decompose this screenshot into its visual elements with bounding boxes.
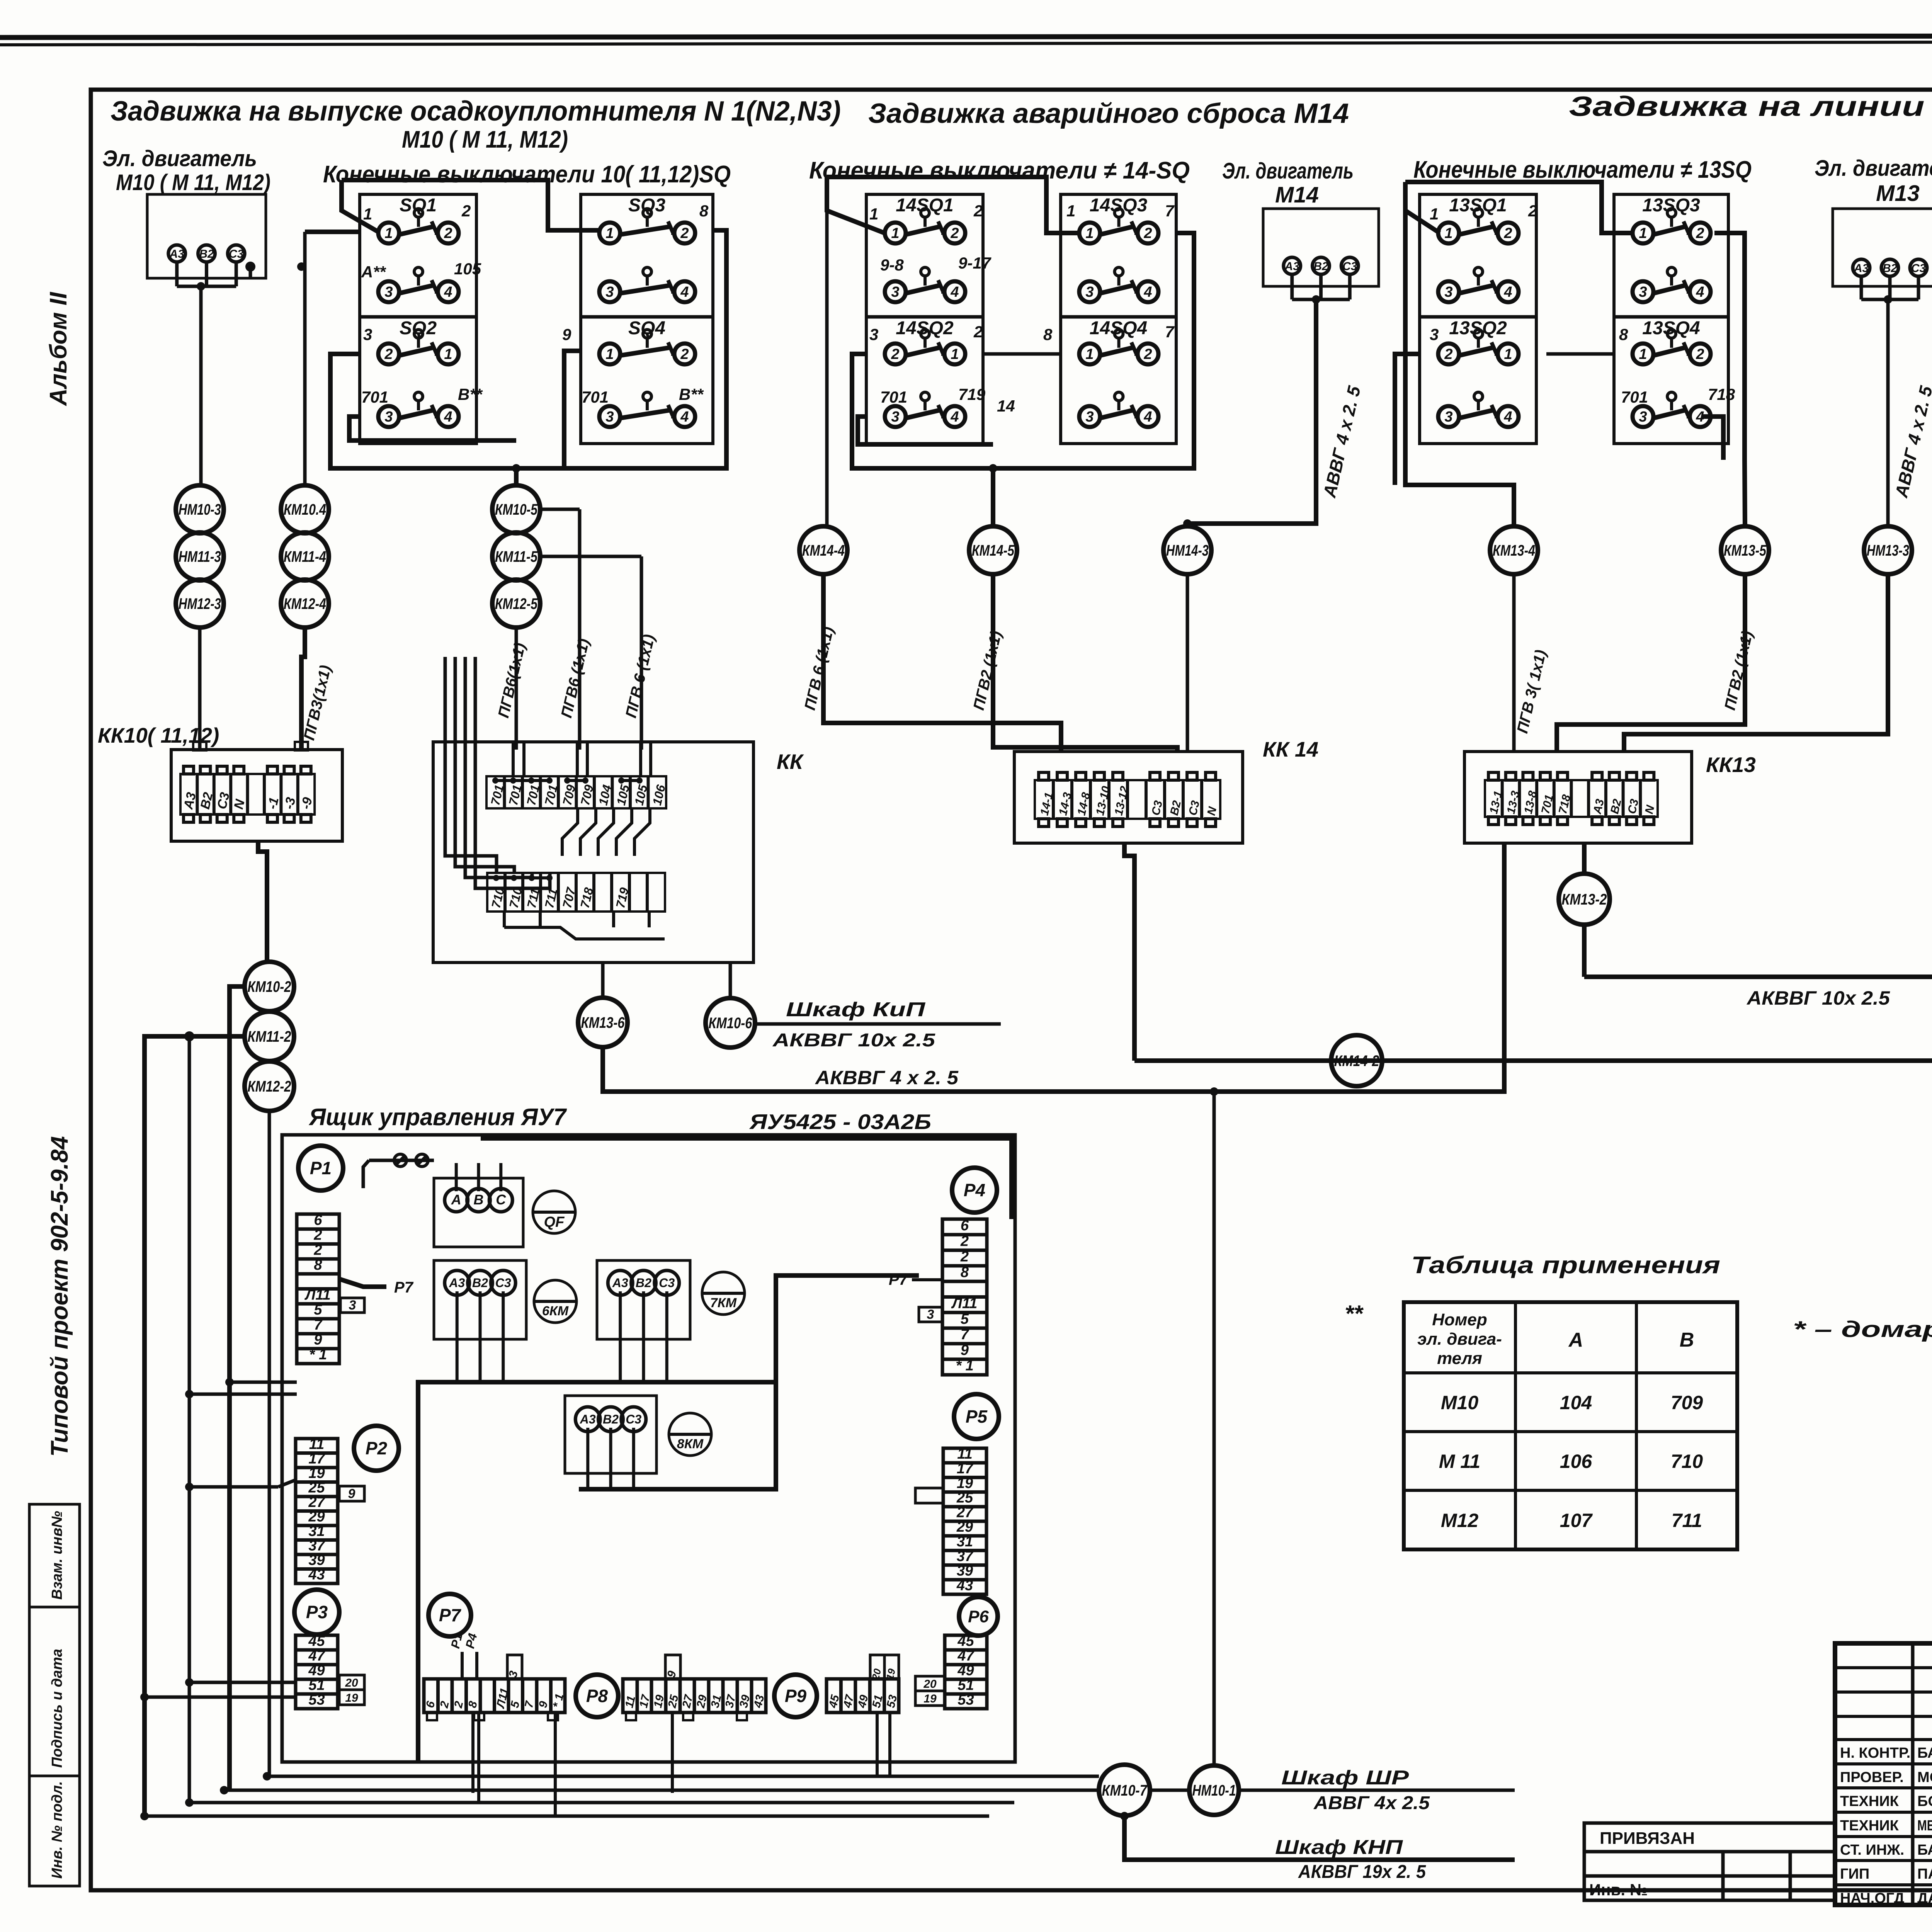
contactor 8КМ [669,1413,711,1456]
svg-text:В: В [474,1192,484,1207]
wire - SQ13 group top link [1405,182,1634,233]
svg-text:2: 2 [973,323,983,341]
contactor 6КМ [534,1280,577,1323]
svg-text:4: 4 [1143,284,1152,300]
wire - bottom bus y4597 [267,1775,1099,1778]
contact row 3-4 of 13SQ3 [1633,281,1653,302]
svg-text:19: 19 [957,1475,973,1492]
svg-text:3: 3 [1444,409,1452,425]
svg-text:А3: А3 [580,1412,596,1426]
wire - bottom bus y4665 [189,1801,1014,1804]
wire - group left vertical to КМ13-4 [1405,211,1514,526]
svg-text:1: 1 [1444,225,1452,241]
relay coil КМ13-6 [578,998,628,1047]
wire - SQ2 701 row link [349,417,516,440]
svg-text:1: 1 [1085,225,1094,241]
svg-text:Р4: Р4 [964,1180,985,1200]
svg-text:3: 3 [1085,409,1094,425]
svg-text:5: 5 [508,1699,522,1709]
svg-text:19: 19 [923,1692,937,1705]
svg-text:701: 701 [361,388,388,406]
svg-text:КК10( 11,12): КК10( 11,12) [98,723,219,747]
svg-text:КМ14-5: КМ14-5 [972,542,1015,559]
wire - 13SQ row crossing [1546,352,1614,356]
svg-text:С3: С3 [229,248,244,260]
svg-text:701: 701 [582,388,609,406]
svg-text:7: 7 [961,1327,969,1343]
junction dots [197,282,205,291]
svg-text:710: 710 [1671,1451,1703,1472]
svg-text:2: 2 [1143,346,1152,362]
svg-text:Шкаф ШР: Шкаф ШР [1281,1767,1409,1789]
svg-text:719: 719 [958,385,986,403]
svg-text:Конечные выключатели ≠ 13SQ: Конечные выключатели ≠ 13SQ [1413,156,1752,183]
svg-text:С3: С3 [1186,799,1202,816]
svg-text:1: 1 [605,346,614,362]
svg-text:14SQ1: 14SQ1 [896,195,953,216]
svg-text:ПГВ2 (1х1): ПГВ2 (1х1) [1721,629,1756,712]
terminal tabs КК10 [184,766,194,774]
svg-text:А3: А3 [1591,798,1607,815]
svg-text:В2: В2 [1313,260,1328,273]
wire - КМ14-5 down to КК14 [993,574,1177,752]
svg-text:2: 2 [1696,225,1704,241]
svg-text:N: N [1643,804,1657,815]
svg-text:В**: В** [458,385,483,403]
svg-text:104: 104 [1560,1392,1592,1413]
left margin stamp boxes [29,1504,80,1607]
wire - КМ10-7 down to Шкаф КНП line [1124,1816,1515,1860]
svg-text:НМ13-3: НМ13-3 [1867,542,1909,559]
relay label circle Р6 (ЯУ7) [959,1597,998,1636]
svg-text:НМ10-1: НМ10-1 [1192,1782,1236,1799]
relay label circle Р4 (ЯУ7) [952,1168,997,1213]
svg-text:ПГВ2 (1х1): ПГВ2 (1х1) [970,629,1005,712]
svg-text:1: 1 [1066,202,1075,220]
svg-text:47: 47 [957,1648,975,1664]
svg-text:Р4: Р4 [463,1632,480,1650]
relay coil КМ10-5 [492,485,540,533]
svg-text:2: 2 [384,346,393,362]
svg-text:9: 9 [348,1486,355,1501]
svg-text:Р9: Р9 [785,1686,807,1706]
svg-text:ПГВ6 (1х1): ПГВ6 (1х1) [558,637,593,719]
wire - КК10 bottom stub to КМ10-2 [258,841,267,960]
horizontal strip P9 (ЯУ7) [827,1679,899,1713]
svg-text:1: 1 [951,346,959,362]
svg-text:1: 1 [891,225,899,241]
svg-text:4: 4 [680,284,689,300]
svg-text:КМ14-2: КМ14-2 [1334,1053,1379,1070]
svg-text:1: 1 [384,225,393,241]
svg-text:2: 2 [950,225,959,241]
wire - НМ chain down to КК10 block [198,628,202,750]
svg-text:20: 20 [345,1677,358,1689]
svg-text:ТЕХНИК: ТЕХНИК [1840,1793,1899,1810]
wire - С3 lead corner [249,267,252,278]
wires exiting ЯУ7 strips downward [471,1713,474,1793]
svg-text:С3: С3 [1626,798,1641,815]
svg-text:С3: С3 [1149,799,1165,816]
relay coil КМ10-6 [706,998,755,1048]
svg-text:39: 39 [957,1563,973,1579]
limit switch box 14SQ3/14SQ4 [1061,194,1176,444]
wire - 14SQ2 701 row [858,417,993,444]
svg-text:3: 3 [1430,325,1439,344]
wire - КМ11-2 to left drop [145,1036,245,1816]
contact row 1-2 of 13SQ1 [1438,223,1459,243]
limit switch box 14SQ1/14SQ2 [866,194,983,444]
svg-text:теля: теля [1437,1349,1482,1368]
feet under ЯУ7 horizontal strips [427,1713,437,1720]
svg-text:Шкаф КНП: Шкаф КНП [1275,1836,1403,1859]
terminal tabs КК14 [1039,772,1049,780]
wire - SQ14 group top link [827,177,1081,233]
svg-text:А3: А3 [449,1276,465,1290]
wire - SQ4 side link [516,230,726,468]
svg-text:С3: С3 [626,1412,641,1426]
contact row of SQ2 [378,344,399,364]
svg-text:В2: В2 [603,1412,619,1426]
wire - branch drop [188,1036,191,1803]
svg-text:Инв. № подл.: Инв. № подл. [49,1781,65,1879]
svg-text:4: 4 [680,409,689,425]
svg-text:В2: В2 [636,1276,651,1290]
title block verticals (left part) [1911,1643,1915,1905]
wire - motor M14 down to НМ14-3 (АВВГ 4х2.5) [1187,299,1316,526]
relay coil КМ14-5 [969,526,1017,574]
svg-text:КМ13-2: КМ13-2 [1562,891,1607,908]
svg-text:А3: А3 [169,248,185,260]
svg-text:7: 7 [1165,323,1175,341]
relay coil КМ10-7 [1099,1765,1150,1816]
svg-text:1: 1 [363,205,372,223]
contact row of 14SQ2 [885,344,906,364]
relay coil НМ13-3 [1864,526,1912,574]
relay coil КМ11-2 [245,1012,294,1061]
title block rows (left part) [1835,1666,1932,1669]
wire - 13SQ4 side link to КМ13-5 [1714,233,1745,526]
application table [1404,1302,1737,1549]
svg-text:АВВГ 4х 2.5: АВВГ 4х 2.5 [1313,1793,1430,1813]
svg-text:КМ13-4: КМ13-4 [1493,542,1535,559]
relay label circle Р7 (ЯУ7) [429,1594,471,1636]
svg-text:АКВВГ 10х 2.5: АКВВГ 10х 2.5 [1746,987,1890,1009]
svg-text:27: 27 [308,1494,325,1510]
svg-text:С3: С3 [1911,262,1926,275]
wire - КК bottom stub to КМ10-6 [729,963,732,998]
svg-text:Ящик управления ЯУ7: Ящик управления ЯУ7 [308,1104,567,1131]
svg-text:ДАНИЛОВ: ДАНИЛОВ [1917,1890,1932,1906]
svg-text:11: 11 [957,1446,972,1462]
svg-text:А: А [451,1192,461,1207]
terminal strip Р4 (ЯУ7) [942,1219,987,1375]
svg-text:2: 2 [461,202,471,220]
svg-text:1: 1 [1639,225,1647,241]
terminal strip Р5 (ЯУ7) [943,1448,986,1594]
wires КК internal drops [562,808,578,856]
svg-text:N: N [1205,805,1219,817]
svg-text:В2: В2 [1608,798,1624,815]
svg-text:Л11: Л11 [951,1296,978,1312]
relay coil НМ10-1 [1189,1765,1239,1815]
svg-text:3: 3 [1639,409,1647,425]
contact row 1-2 of 14SQ3 [1079,223,1100,243]
svg-text:4: 4 [950,284,959,300]
limit switch box 13SQ1/13SQ2 [1420,194,1536,444]
svg-text:8КМ: 8КМ [677,1437,704,1451]
side boxes 20/19 on Р6 strip (ЯУ7) [915,1676,945,1691]
svg-text:8: 8 [699,202,709,220]
svg-text:3: 3 [869,325,878,344]
svg-text:2: 2 [680,346,689,362]
svg-text:53: 53 [957,1692,974,1708]
svg-text:17: 17 [957,1461,974,1477]
terminal box А3В2С3 6КМ (ЯУ7) [434,1260,526,1339]
svg-text:КМ13-6: КМ13-6 [581,1014,625,1031]
contact row 3-4 of 14SQ2 [885,406,906,427]
svg-text:Таблица применения: Таблица применения [1411,1252,1720,1279]
svg-text:2: 2 [444,225,452,241]
svg-text:ПГВ6(1х1): ПГВ6(1х1) [495,641,529,719]
svg-text:51: 51 [957,1677,974,1693]
wire - lead-in to 14SQ1 pin1 [827,177,884,233]
svg-text:6: 6 [314,1212,322,1228]
svg-text:КМ12-2: КМ12-2 [248,1078,291,1095]
svg-text:Р1: Р1 [310,1158,332,1178]
svg-text:2: 2 [452,1700,466,1709]
svg-text:45: 45 [957,1633,974,1649]
КК lower terminal strip [487,873,665,912]
svg-text:3: 3 [605,284,614,300]
svg-text:1: 1 [1639,346,1647,362]
svg-text:37: 37 [308,1538,325,1554]
svg-text:45: 45 [308,1633,325,1649]
svg-text:Номер: Номер [1432,1310,1487,1329]
svg-text:В2: В2 [472,1276,488,1290]
wire - motor M10 leads to bus [175,262,179,286]
svg-text:МЕНОВЩИКОВА: МЕНОВЩИКОВА [1917,1818,1932,1834]
svg-text:4: 4 [950,409,959,425]
wire - КМ13-6 down and across to КК13 (АКВВГ 4х2.5) [603,843,1504,1092]
svg-text:А: А [1568,1329,1583,1351]
svg-text:Подпись и дата: Подпись и дата [49,1649,65,1768]
svg-text:М12: М12 [1441,1510,1478,1531]
svg-text:2: 2 [891,346,899,362]
svg-text:Н. КОНТР.: Н. КОНТР. [1840,1745,1910,1761]
svg-text:5: 5 [314,1302,322,1318]
relay coil НМ14-3 [1163,526,1211,574]
svg-text:АКВВГ 19х 2. 5: АКВВГ 19х 2. 5 [1298,1862,1426,1882]
contact row 3-4 of 13SQ4 [1633,406,1653,427]
svg-text:3: 3 [927,1307,934,1322]
wire - 14SQ2 row link to КМ14-5 [852,354,993,526]
svg-text:эл. двига-: эл. двига- [1417,1330,1502,1349]
svg-text:4: 4 [444,284,452,300]
svg-text:В2: В2 [199,248,214,260]
wire - SQ4 row 9 link [564,351,581,468]
wire - 13SQ2 row link [1395,354,1420,485]
svg-text:39: 39 [308,1552,325,1568]
wire - motor M13 down to НМ13-3 (АВВГ 4х2.5) [1886,299,1890,526]
svg-text:6: 6 [423,1700,437,1709]
svg-text:11: 11 [309,1436,324,1452]
svg-text:ПГВ 3( 1х1): ПГВ 3( 1х1) [1514,648,1549,735]
svg-text:25: 25 [308,1480,325,1496]
svg-text:Конечные выключатели ≠ 14-SQ: Конечные выключатели ≠ 14-SQ [809,157,1190,184]
svg-text:105: 105 [454,260,481,278]
relay label circle Р3 (ЯУ7) [294,1590,339,1634]
svg-text:49: 49 [957,1662,974,1679]
svg-text:2: 2 [1528,202,1537,220]
contact row of SQ4 [599,344,620,364]
contact row of 14SQ4 [1079,344,1100,364]
horizontal strip P8 (ЯУ7) [623,1679,766,1713]
contact row 1-2 of 14SQ1 [885,223,906,243]
svg-text:КМ11-5: КМ11-5 [495,548,538,565]
svg-text:2: 2 [313,1227,322,1243]
contact row 3-4 of 14SQ3 [1079,281,1100,302]
frame bottom extra segment under title block [1835,1903,1932,1907]
svg-text:17: 17 [308,1451,325,1467]
svg-text:КК13: КК13 [1706,753,1756,777]
svg-text:Конечные выключатели 10( 11,: Конечные выключатели 10( 11,12)SQ [323,161,731,188]
contact row 1-2 of SQ1 [378,223,399,243]
svg-text:3: 3 [1444,284,1452,300]
svg-text:-3: -3 [282,796,299,811]
svg-text:ЯУ5425 - 03А2Б: ЯУ5425 - 03А2Б [749,1110,931,1134]
control box ЯУ7 outline [282,1135,1015,1762]
svg-text:Р2: Р2 [366,1438,388,1458]
contact row 1-2 of SQ3 [599,223,620,243]
terminal box А3В2С3 8КМ (ЯУ7) [565,1396,656,1473]
terminal strip Р3 (ЯУ7) [296,1635,338,1709]
contact row of 13SQ4 [1633,344,1653,364]
svg-text:КМ10-6: КМ10-6 [709,1015,753,1032]
svg-text:Шкаф КиП: Шкаф КиП [786,998,926,1021]
svg-text:ПРОВЕР.: ПРОВЕР. [1840,1769,1904,1786]
circuit breaker QF (ЯУ7) [533,1191,575,1233]
side boxes 20/19 on Р3 strip (ЯУ7) [339,1675,364,1690]
relay label circle Р2 (ЯУ7) [354,1426,399,1471]
svg-text:9: 9 [562,325,571,344]
svg-text:106: 106 [1560,1451,1593,1472]
svg-text:43: 43 [956,1577,973,1594]
contact row 3-4 of SQ1 [378,281,399,302]
relay coil КМ13-2 [1559,874,1610,925]
svg-text:49: 49 [308,1662,325,1679]
svg-text:НМ14-3: НМ14-3 [1166,542,1209,559]
svg-text:КМ14-4: КМ14-4 [802,542,845,559]
svg-text:6: 6 [961,1218,969,1234]
wire - ЯУ7 internal top run [481,1138,1012,1219]
title block outline [1835,1643,1932,1905]
svg-text:БАКШЕЕВА: БАКШЕЕВА [1917,1745,1932,1761]
wire - long АКВВГ run through КМ14-2 to ЯУ8 [1134,753,1932,1061]
relay coil КМ11-5 [492,532,540,580]
svg-text:С: С [496,1192,506,1207]
svg-text:19: 19 [345,1692,358,1704]
svg-text:4: 4 [1696,284,1704,300]
svg-text:М14: М14 [1275,182,1319,207]
svg-text:4: 4 [1143,409,1152,425]
svg-text:8: 8 [314,1257,322,1273]
wire - drop to КМ10.4 chain [305,230,360,234]
contact row 3-4 of SQ4 [599,406,620,427]
svg-text:Р7: Р7 [889,1271,908,1288]
svg-text:3: 3 [891,284,899,300]
svg-text:3: 3 [384,409,393,425]
relay label circle Р8 (ЯУ7) [576,1675,618,1717]
svg-text:7: 7 [522,1699,536,1709]
svg-text:8: 8 [466,1700,480,1709]
relay coil КМ12-5 [492,580,540,628]
relay coil КМ12-2 [245,1061,294,1111]
terminal strip Р2 (ЯУ7) [296,1439,338,1583]
wire - НМ10-1 up [1213,1094,1216,1765]
svg-text:SQ3: SQ3 [628,195,665,216]
svg-text:КМ11-4: КМ11-4 [284,548,326,565]
svg-text:ГИП: ГИП [1840,1866,1869,1882]
terminal strip Р1 (ЯУ7) [297,1214,339,1364]
svg-text:КМ13-5: КМ13-5 [1724,542,1767,559]
wire - КК14 bottom stub [1124,843,1134,1061]
svg-text:КМ10.4: КМ10.4 [284,501,326,518]
svg-text:709: 709 [1671,1392,1703,1413]
svg-text:ТЕХНИК: ТЕХНИК [1840,1818,1899,1834]
wire - bus 2 (ЯУ7) [579,1382,776,1489]
wires from АВС (ЯУ7) up [455,1163,458,1191]
svg-text:4: 4 [1503,409,1512,425]
svg-text:СТ. ИНЖ.: СТ. ИНЖ. [1840,1842,1904,1858]
wire - big internal bus (ЯУ7) [418,1276,919,1761]
side box 3 on Р4 strip (ЯУ7) [919,1307,942,1322]
svg-text:1: 1 [1430,205,1439,223]
svg-text:БОКОВА: БОКОВА [1917,1793,1932,1810]
svg-text:107: 107 [1560,1510,1593,1531]
contact row 3-4 of SQ3 [599,281,620,302]
svg-text:14: 14 [997,397,1015,415]
svg-text:9: 9 [314,1332,322,1348]
svg-text:1: 1 [605,225,614,241]
wire - SQ10 group top link [342,180,598,230]
svg-text:3: 3 [349,1298,356,1313]
svg-text:МОСЕЕНКО: МОСЕЕНКО [1917,1769,1932,1786]
svg-text:КМ12-4: КМ12-4 [284,595,326,612]
svg-text:2: 2 [1143,225,1152,241]
wire - 14SQ4 side link [993,233,1194,468]
wire - КК bottom stub to КМ13-6 [601,963,605,998]
relay coil НМ10-3 [176,485,224,533]
wire taps into ЯУ7 P2/P3 strips [189,1485,278,1489]
svg-text:Р7: Р7 [439,1605,462,1625]
wire - НМ14-3 down [1186,574,1189,752]
wire - SQ2 row to КМ10-5 [330,354,516,485]
svg-text:Р3: Р3 [306,1602,328,1622]
svg-text:НМ12-3: НМ12-3 [179,595,221,612]
svg-text:N: N [231,798,248,811]
svg-text:БАКШЕЕВА: БАКШЕЕВА [1917,1842,1932,1858]
Шкаф КИП label and line [755,1022,1001,1026]
svg-text:В2: В2 [1883,262,1898,275]
svg-text:Эл. двигатель: Эл. двигатель [102,146,257,171]
sheet top edge second line [0,42,1932,45]
contact row 3-4 of SQ2 [378,406,399,427]
svg-text:9-17: 9-17 [958,254,992,272]
relay coil КМ14-4 [799,526,847,574]
svg-text:-1: -1 [265,796,282,811]
svg-text:1: 1 [869,205,878,223]
